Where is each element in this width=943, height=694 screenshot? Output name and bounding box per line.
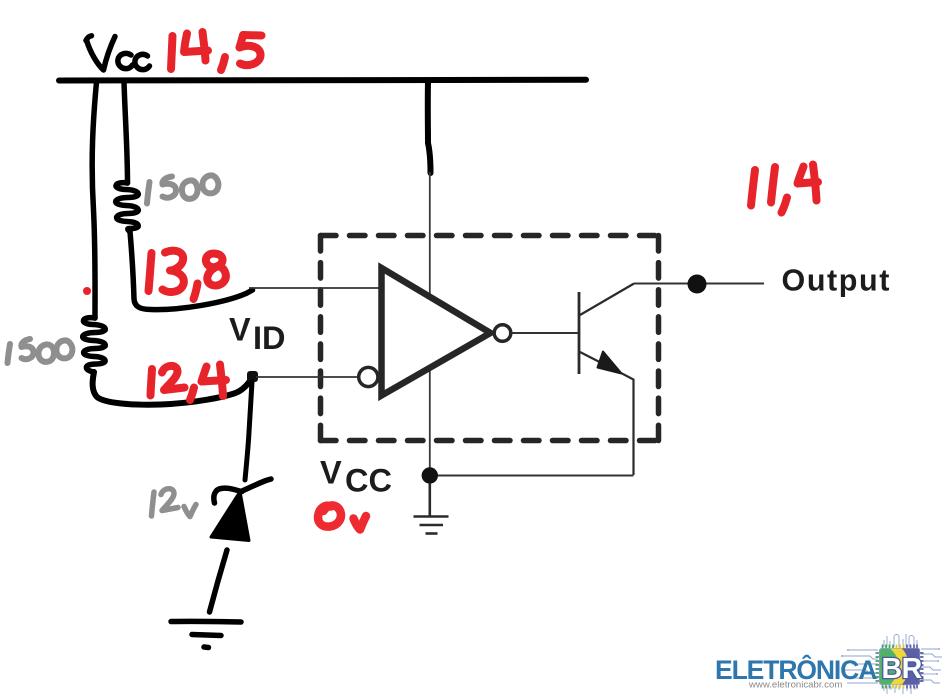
red dot mark [83,287,91,295]
ground symbol (hand-drawn) [171,621,241,647]
label VCC (printed) [320,455,392,499]
wire: R1 bottom to VID+ node (hand-drawn, 13,8 net) [130,232,253,310]
wire: hand overlay on VCC line from rail [428,82,431,173]
value 1500 (R1, gray handwritten) [147,175,218,203]
logo circuit traces bottom [884,686,915,694]
wire: zener anode to ground (hand-drawn) [210,550,228,612]
wire: left drop from rail to R2 (hand-drawn) [92,82,96,318]
label Vcc (handwritten) [86,36,150,70]
transistor Q1 collector [580,284,634,316]
annotation 11,4 (red handwritten) [751,165,818,213]
value 1500 (R2, gray handwritten) [8,339,73,363]
node junction VID- (square dot) [247,371,258,382]
transistor Q1 emitter with arrow [580,352,634,476]
zener diode D1 anode triangle (filled) [211,492,249,541]
annotation 13,8 (red handwritten) [149,251,226,299]
ground symbol at VCC pin (printed) [414,483,449,534]
logo ELETRONICA BR [715,634,942,694]
logo chip body [880,649,920,685]
svg-text:V: V [229,312,251,348]
value 12v (gray handwritten) [152,489,197,517]
wire: comparator + input (printed) [249,287,380,289]
svg-text:Output: Output [782,264,892,298]
wire: VCC power rail (hand-drawn) [59,77,586,84]
annotation 12,4 (red handwritten) [151,365,227,401]
svg-text:ID: ID [253,320,286,356]
wire: junction to zener (hand-drawn) [245,382,252,480]
label VID (printed) [229,312,286,357]
resistor R2 (hand-drawn coil) [83,318,106,372]
annotation 0v (red handwritten) [318,505,366,529]
wire: thin VCC line through box (printed) [429,172,431,474]
logo circuit traces top [884,634,917,647]
wire: bubble to transistor base (printed) [511,332,578,334]
wire: R2 bottom to VID- node (hand-drawn, 12,4 net) [93,372,252,405]
wire: emitter/VCC bottom net (printed) [430,475,634,477]
inverting input bubble [359,367,378,386]
svg-text:CC: CC [345,463,392,499]
annotation 14,5 (red handwritten) [171,32,262,70]
wire: drop from rail to R1 (hand-drawn) [124,82,128,183]
resistor R1 (hand-drawn coil) [116,183,139,232]
wire: output net (printed) [634,283,764,285]
svg-text:www.eletronicabr.com: www.eletronicabr.com [748,680,842,691]
logo chip pins [876,645,924,689]
transistor Q1 base bar [578,292,581,374]
svg-text:BR: BR [882,653,922,685]
logo circuit traces left [841,649,878,683]
wire: comparator - input (printed) [256,376,357,378]
node: VCC pin dot [422,467,438,483]
zener diode D1 cathode bar with wings (hand-drawn) [214,479,271,503]
output bubble [494,325,511,342]
node: output dot [688,275,707,294]
logo circuit traces right [921,648,942,683]
svg-text:V: V [320,455,342,491]
logo BR text [882,653,922,685]
op-amp comparator U1 (triangle) [382,268,491,396]
dashed IC boundary box [321,236,659,441]
